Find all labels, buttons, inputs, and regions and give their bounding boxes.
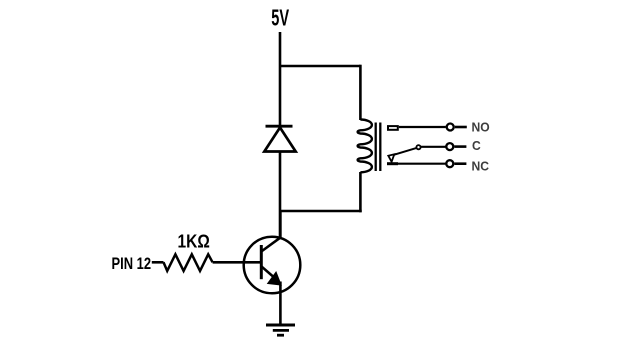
svg-text:PIN 12: PIN 12 xyxy=(112,256,152,274)
svg-text:1KΩ: 1KΩ xyxy=(178,230,210,252)
svg-text:NO: NO xyxy=(472,120,490,134)
svg-text:5V: 5V xyxy=(271,5,289,31)
svg-text:C: C xyxy=(472,139,481,153)
svg-text:NC: NC xyxy=(472,159,489,173)
